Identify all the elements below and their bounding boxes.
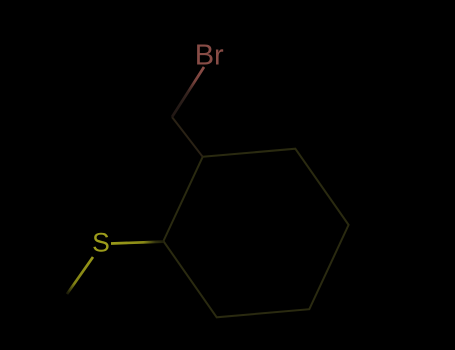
wire CH2-ring bond — [172, 117, 203, 157]
wire S-ring bond — [111, 242, 163, 244]
wire S-methyl bond — [67, 257, 93, 294]
wire C-Br bond — [172, 67, 204, 117]
svg-text:Br: Br — [195, 40, 224, 72]
benzene ring — [163, 149, 348, 318]
svg-text:S: S — [92, 228, 110, 258]
